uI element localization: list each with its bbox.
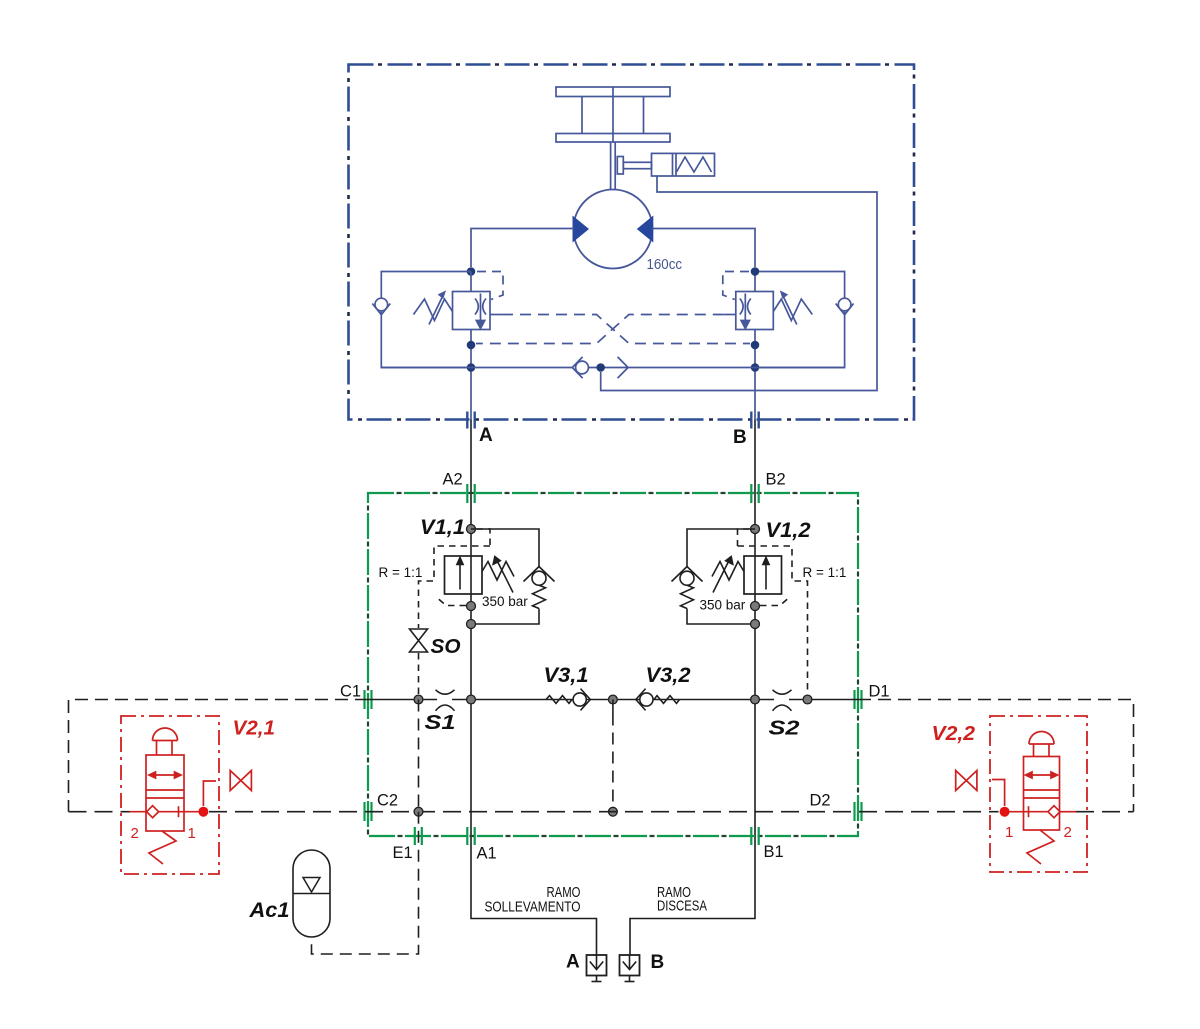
port A2 marker (467, 484, 474, 503)
port E1 marker (415, 827, 422, 845)
left external dashed box (69, 700, 369, 812)
V2,2 return spring (1027, 830, 1054, 864)
port B1 marker (751, 827, 758, 845)
V1,1 dashed housing outline (419, 529, 491, 694)
V2,1 pilot line to bleeder (203, 781, 216, 806)
svg-text:A2: A2 (443, 471, 463, 489)
node A top (471,271.5) (467, 267, 476, 276)
node A line (471,699.5) (467, 695, 476, 704)
valve V2,1 body (146, 755, 184, 831)
V2,1 port 2 line with orifice diamond (130, 806, 159, 818)
node SO line (418.5,699.5) (414, 695, 423, 704)
svg-text:C1: C1 (340, 683, 361, 701)
svg-text:R = 1:1: R = 1:1 (379, 565, 423, 580)
svg-text:B: B (651, 952, 665, 973)
svg-text:A1: A1 (477, 845, 497, 863)
V2,2 port 1 junction dot (1000, 807, 1010, 817)
CB-A spring with adjusting arrow (414, 292, 453, 325)
svg-text:V3,1: V3,1 (544, 664, 589, 687)
V1,1 relief check valve with spring (471, 529, 555, 624)
port A1 marker (467, 827, 474, 845)
svg-text:2: 2 (131, 825, 139, 842)
port B marker on blue box (751, 412, 758, 429)
pilot crossover dashed line B-to-A (476, 315, 724, 344)
svg-text:C2: C2 (377, 792, 398, 810)
bleeder valve at V2,1 (230, 771, 251, 791)
V2,1 port 1 junction dot (198, 807, 208, 817)
svg-text:1: 1 (188, 825, 196, 842)
quick coupling S1 (436, 690, 455, 711)
V2,1 return spring (149, 831, 176, 864)
line A vertical (port A down to branch) (471, 420, 597, 956)
svg-text:D2: D2 (810, 792, 831, 810)
wire motor right port to line B (652, 229, 755, 268)
svg-text:Ac1: Ac1 (248, 899, 289, 922)
svg-text:V3,2: V3,2 (646, 664, 691, 687)
V2,2 pilot line to bleeder (992, 780, 1005, 807)
svg-text:A: A (566, 952, 580, 973)
accumulator Ac1 (293, 850, 330, 937)
svg-text:2: 2 (1064, 824, 1072, 841)
svg-text:V1,1: V1,1 (420, 516, 465, 539)
port B2 marker (751, 484, 758, 503)
node B line (755,699.5) (751, 695, 760, 704)
V2,2 port 2 line with orifice diamond (1048, 806, 1076, 818)
shut-off valve SO (410, 629, 428, 652)
valve V1,1 body (445, 556, 483, 594)
CB-B pilot stub to crossover (724, 314, 736, 316)
bypass check valve CV-B (755, 272, 854, 368)
node drain E1 (418.5,811.7) (414, 807, 423, 816)
main dashed drain line (y=811.7) (69, 811, 1134, 813)
node (755,624) (751, 620, 760, 629)
svg-text:R = 1:1: R = 1:1 (803, 565, 847, 580)
CB-A internal pilot (dashed) (477, 272, 503, 300)
E1 dashed drop to accumulator (312, 700, 419, 955)
svg-text:SO: SO (431, 635, 461, 658)
port C2 marker (365, 802, 372, 821)
hydraulic motor M1 160cc (573, 190, 654, 269)
CB-B internal pilot (dashed) (723, 272, 749, 300)
port C1 marker (365, 690, 372, 709)
svg-text:S2: S2 (769, 717, 801, 740)
drum shaft (611, 142, 616, 190)
svg-text:A: A (479, 425, 493, 446)
pilot crossover dashed line A-to-B (502, 315, 750, 344)
bottom port B quick coupling (620, 955, 640, 982)
counterbalance valve CB-A body (453, 272, 491, 420)
check valve V3,2 with spring (636, 689, 680, 711)
V1,2 spring with adjusting arrow (712, 557, 744, 593)
hydraulic power unit enclosure (blue dash-dot box) (349, 65, 915, 420)
node center (612.9,699.5) (609, 695, 618, 704)
svg-text:B1: B1 (764, 843, 784, 861)
winch drum W1 (556, 87, 670, 142)
V1,2 dashed housing outline (738, 529, 808, 694)
valve V2,2 body (1024, 757, 1060, 831)
wire motor left port to line A (471, 229, 574, 268)
svg-text:E1: E1 (393, 844, 413, 862)
node A mid (471,345) (467, 341, 476, 350)
node shuttle out (600.7,367.5) (596, 363, 605, 372)
svg-text:DISCESA: DISCESA (657, 898, 707, 915)
brake cylinder (spring applied) (617, 153, 714, 176)
svg-text:B: B (733, 427, 747, 448)
V2,1 push button actuator (153, 728, 178, 755)
port A marker on blue box (467, 412, 474, 429)
port D1 marker (855, 690, 862, 709)
node B mid (755,345) (751, 341, 760, 350)
bleeder valve at V2,2 (956, 771, 977, 791)
svg-text:D1: D1 (869, 683, 890, 701)
node (471,624) (467, 620, 476, 629)
bottom port A quick coupling (587, 955, 607, 982)
svg-text:1: 1 (1005, 824, 1013, 841)
V1,2 relief check valve with spring (672, 529, 756, 624)
node V1,1 top (471,529) (467, 525, 476, 534)
node A low (471,367.5) (467, 363, 476, 372)
svg-text:V2,1: V2,1 (233, 718, 276, 740)
node center drain (612.9,811.7) (609, 807, 618, 816)
svg-text:B2: B2 (766, 471, 786, 489)
svg-text:350 bar: 350 bar (700, 598, 746, 613)
valve V2,2 enclosure (red dash-dot box) (990, 716, 1087, 872)
CB-B spring with adjusting arrow (773, 292, 812, 325)
svg-text:SOLLEVAMENTO: SOLLEVAMENTO (485, 899, 581, 916)
svg-text:350 bar: 350 bar (482, 594, 528, 609)
V2,2 push button actuator (1029, 732, 1054, 757)
anticavitation line with check valve SH1 (381, 357, 844, 378)
counterbalance valve CB-B body (736, 272, 774, 420)
quick coupling S2 (773, 690, 792, 711)
right external dashed box (858, 700, 1134, 812)
svg-text:V2,2: V2,2 (932, 723, 976, 745)
node vent right (807.5,699.5) (803, 695, 812, 704)
svg-text:V1,2: V1,2 (766, 519, 811, 542)
V2,2 port 1 line with seat tick (1005, 806, 1048, 817)
valve V2,1 enclosure (red dash-dot box) (121, 716, 219, 874)
line B vertical (port B down to branch) (630, 420, 755, 956)
V1,2 pilot node (755,606) (751, 602, 760, 611)
node B top (755,271.5) (751, 267, 760, 276)
CB-A pilot stub to crossover (490, 314, 502, 316)
manifold enclosure (green dash-dot box) (368, 493, 858, 836)
node V1,2 top (755,529) (751, 525, 760, 534)
V1,1 pilot node (471,606) (467, 602, 476, 611)
svg-text:160cc: 160cc (647, 257, 683, 273)
cross line C1-D1 (368, 699, 858, 701)
brake pilot line from shuttle node (601, 176, 877, 391)
center drain stub and dashed drop (612, 700, 614, 812)
bypass check valve CV-A (372, 272, 471, 368)
V1,1 spring with adjusting arrow (482, 557, 514, 593)
svg-text:S1: S1 (425, 711, 456, 734)
V2,1 port 1 line with seat tick (159, 806, 204, 817)
valve V1,2 body (744, 556, 782, 594)
node B low (755,367.5) (751, 363, 760, 372)
port D2 marker (855, 802, 862, 821)
check valve V3,1 with spring (546, 689, 590, 711)
